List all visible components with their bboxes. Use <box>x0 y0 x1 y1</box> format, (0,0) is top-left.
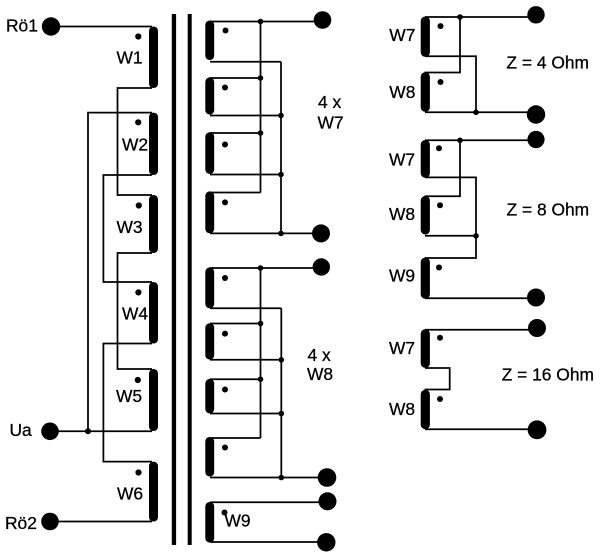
junction dot W7 bottom bus 3 <box>278 231 284 237</box>
wire W8 coil 3 bottom <box>210 413 281 415</box>
wire Z16 W7 bottom to W8 top <box>425 368 450 390</box>
polarity dot W3 <box>136 202 142 208</box>
wire Z8 W7 bottom to node <box>425 177 476 235</box>
polarity dot W8 coil 1 <box>222 275 228 281</box>
polarity dot W7 coil 3 <box>222 142 228 148</box>
junction dot W7 top bus 3 <box>258 130 264 136</box>
transformer core line left <box>172 14 176 545</box>
wire Z8 W7 top to terminal <box>425 139 536 141</box>
secondary winding W8 coil 1 <box>205 267 214 308</box>
junction dot W7 top bus 1 <box>258 19 264 25</box>
polarity dot W5 <box>135 377 141 383</box>
wire W8 coil 4 top <box>210 437 261 439</box>
wire W8 coil 2 bottom <box>210 359 281 361</box>
wire W7 coil 1 bottom <box>210 61 281 63</box>
svg-text:W7: W7 <box>389 338 415 358</box>
wire W9 bottom to terminal <box>210 541 326 543</box>
Z16 winding W7 <box>421 329 430 368</box>
polarity dot W7 coil 2 <box>222 85 228 91</box>
terminal W7 group top <box>314 11 332 29</box>
secondary winding W7 coil 2 <box>205 77 214 114</box>
polarity dot W8 coil 3 <box>222 387 228 393</box>
svg-text:W6: W6 <box>117 484 143 504</box>
secondary winding W7 coil 1 <box>205 21 214 61</box>
junction dot Z8 top <box>457 138 463 144</box>
secondary winding W8 coil 3 <box>205 379 214 414</box>
wire W8 coil 2 top <box>210 323 261 325</box>
terminal Z8 bottom <box>527 289 545 307</box>
Z8 winding W7 <box>421 140 430 178</box>
wire Z8 link W7 top to W8 top <box>425 140 461 196</box>
wire W7 coil 1 top to terminal <box>210 21 322 23</box>
junction dot W7 top bus 2 <box>258 75 264 81</box>
wire Z8 W9 bottom to terminal <box>425 297 536 299</box>
terminal Ua <box>41 423 59 441</box>
secondary winding W8 coil 2 <box>205 323 214 359</box>
polarity dot W7 coil 1 <box>223 28 229 34</box>
primary winding W3 <box>149 195 158 253</box>
wire W2 bottom to W4 top <box>103 175 152 282</box>
transformer core line right <box>188 14 192 545</box>
Z4 winding W7 <box>421 17 430 57</box>
Z8 winding W9 <box>421 258 430 299</box>
junction dot Z4 top <box>457 14 463 20</box>
junction dot Z4 bottom <box>473 110 479 116</box>
polarity dot Z4 W7 <box>438 23 444 29</box>
terminal W8 group top <box>313 258 330 275</box>
svg-text:W7: W7 <box>318 112 344 132</box>
terminal Z16 bottom <box>528 420 547 439</box>
svg-text:W1: W1 <box>117 48 143 68</box>
polarity dot W9 <box>222 510 228 516</box>
wire W7 coil 3 bottom <box>210 174 281 176</box>
wire W7 coil 2 top <box>210 77 261 79</box>
wire Rö2 to W6 bottom <box>50 521 152 523</box>
svg-text:Rö1: Rö1 <box>6 16 38 36</box>
primary winding W5 <box>149 369 158 431</box>
junction dot Z8 node <box>473 233 479 239</box>
Z8 winding W8 <box>421 196 430 235</box>
wire Z4 W7 top to terminal <box>425 16 536 18</box>
svg-text:4 x: 4 x <box>308 345 332 365</box>
junction dot W7 bottom bus 1 <box>278 113 284 119</box>
svg-text:Z = 16 Ohm: Z = 16 Ohm <box>502 364 594 384</box>
bus W8 tops <box>260 268 262 438</box>
polarity dot W7 coil 4 <box>222 199 228 205</box>
svg-text:W3: W3 <box>117 217 143 237</box>
svg-text:W8: W8 <box>307 364 333 384</box>
svg-text:Rö2: Rö2 <box>5 513 37 533</box>
junction dot W8 top bus 2 <box>258 321 264 327</box>
primary winding W6 <box>149 462 158 522</box>
bus W7 bottoms <box>280 62 282 234</box>
secondary winding W9 <box>205 502 214 543</box>
svg-text:Z = 8 Ohm: Z = 8 Ohm <box>507 200 590 220</box>
wire W4 bottom to W6 top <box>103 344 152 462</box>
wire Ua to W5 bottom <box>50 430 152 432</box>
terminal Rö2 <box>41 513 59 531</box>
wire W2 top to Ua junction <box>88 113 152 432</box>
junction dot W8 top bus 1 <box>258 265 264 271</box>
svg-text:W9: W9 <box>389 266 415 286</box>
wire W7 coil 4 top <box>210 192 261 194</box>
terminal Z4 bottom <box>527 105 545 123</box>
wire W8 coil 1 top to terminal <box>210 267 321 269</box>
primary winding W1 <box>149 27 158 89</box>
wire W7 coil 2 bottom <box>210 115 281 117</box>
terminal W7 group bottom <box>312 224 330 242</box>
junction dot Ua node <box>85 428 91 434</box>
svg-text:Z = 4 Ohm: Z = 4 Ohm <box>506 52 589 72</box>
terminal W9 top <box>319 492 337 510</box>
polarity dot Z8 W8 <box>437 202 443 208</box>
wire W8 coil 1 bottom <box>210 307 281 309</box>
secondary winding W8 coil 4 <box>205 437 214 477</box>
polarity dot W1 <box>135 33 141 39</box>
wire W7 coil 3 top <box>210 132 261 134</box>
terminal W8 group bottom <box>318 468 337 487</box>
wire W9 top to terminal <box>210 501 328 503</box>
secondary winding W7 coil 3 <box>205 132 214 174</box>
terminal W9 bottom <box>317 533 335 551</box>
polarity dot Z4 W8 <box>438 79 444 85</box>
wire W8 coil 3 top <box>210 378 261 380</box>
wire W3 bottom to W5 top <box>118 253 153 369</box>
svg-text:W9: W9 <box>225 511 251 531</box>
junction dot W8 bottom bus 3 <box>279 475 285 481</box>
bus W7 tops <box>260 22 262 193</box>
svg-text:W8: W8 <box>389 82 415 102</box>
svg-text:W7: W7 <box>389 25 415 45</box>
Z16 winding W8 <box>421 390 430 429</box>
polarity dot W8 coil 2 <box>222 331 228 337</box>
polarity dot W4 <box>135 289 141 295</box>
svg-text:W4: W4 <box>122 304 148 324</box>
wire W1 bottom to W3 top <box>118 88 153 195</box>
svg-text:W8: W8 <box>389 204 415 224</box>
terminal Z16 top <box>528 319 546 337</box>
wire Z4 W8 bottom to terminal <box>425 111 536 113</box>
wire Z8 node to W9 top <box>425 236 477 258</box>
svg-text:W7: W7 <box>389 150 415 170</box>
primary winding W2 <box>149 113 158 175</box>
polarity dot W6 <box>135 469 141 475</box>
wire Rö1 to W1 top <box>51 26 152 28</box>
bus W8 bottoms <box>280 308 282 477</box>
Z4 winding W8 <box>421 72 430 112</box>
wire Z4 W7 bottom to W8 bottom <box>425 56 476 112</box>
primary winding W4 <box>149 282 158 344</box>
junction dot W8 bottom bus 2 <box>279 411 285 417</box>
junction dot W8 bottom bus 1 <box>279 357 285 363</box>
wire Z8 W8 bottom to node <box>425 235 476 237</box>
junction dot W8 top bus 3 <box>258 376 264 382</box>
secondary winding W7 coil 4 <box>205 191 214 233</box>
svg-text:Ua: Ua <box>10 420 33 440</box>
wire Z4 link W7 top to W8 top <box>425 17 461 73</box>
terminal Z4 top <box>527 6 544 23</box>
terminal Z8 top <box>527 131 544 148</box>
wire W8 coil 4 bottom to terminal <box>210 477 327 479</box>
polarity dot W8 coil 4 <box>222 445 228 451</box>
svg-text:4 x: 4 x <box>318 92 342 112</box>
svg-text:W2: W2 <box>122 135 148 155</box>
polarity dot Z8 W7 <box>436 145 442 151</box>
svg-text:W8: W8 <box>389 399 415 419</box>
wire Z16 W8 bottom to terminal <box>425 428 537 430</box>
junction dot W7 bottom bus 2 <box>278 172 284 178</box>
wire W7 coil 4 bottom to terminal <box>210 232 321 234</box>
polarity dot W2 <box>135 119 141 125</box>
polarity dot Z16 W8 <box>437 396 443 402</box>
terminal Rö1 <box>42 17 60 35</box>
wire Z16 W7 top to terminal <box>425 329 537 331</box>
polarity dot Z8 W9 <box>436 265 442 271</box>
svg-text:W5: W5 <box>116 386 142 406</box>
polarity dot Z16 W7 <box>437 335 443 341</box>
